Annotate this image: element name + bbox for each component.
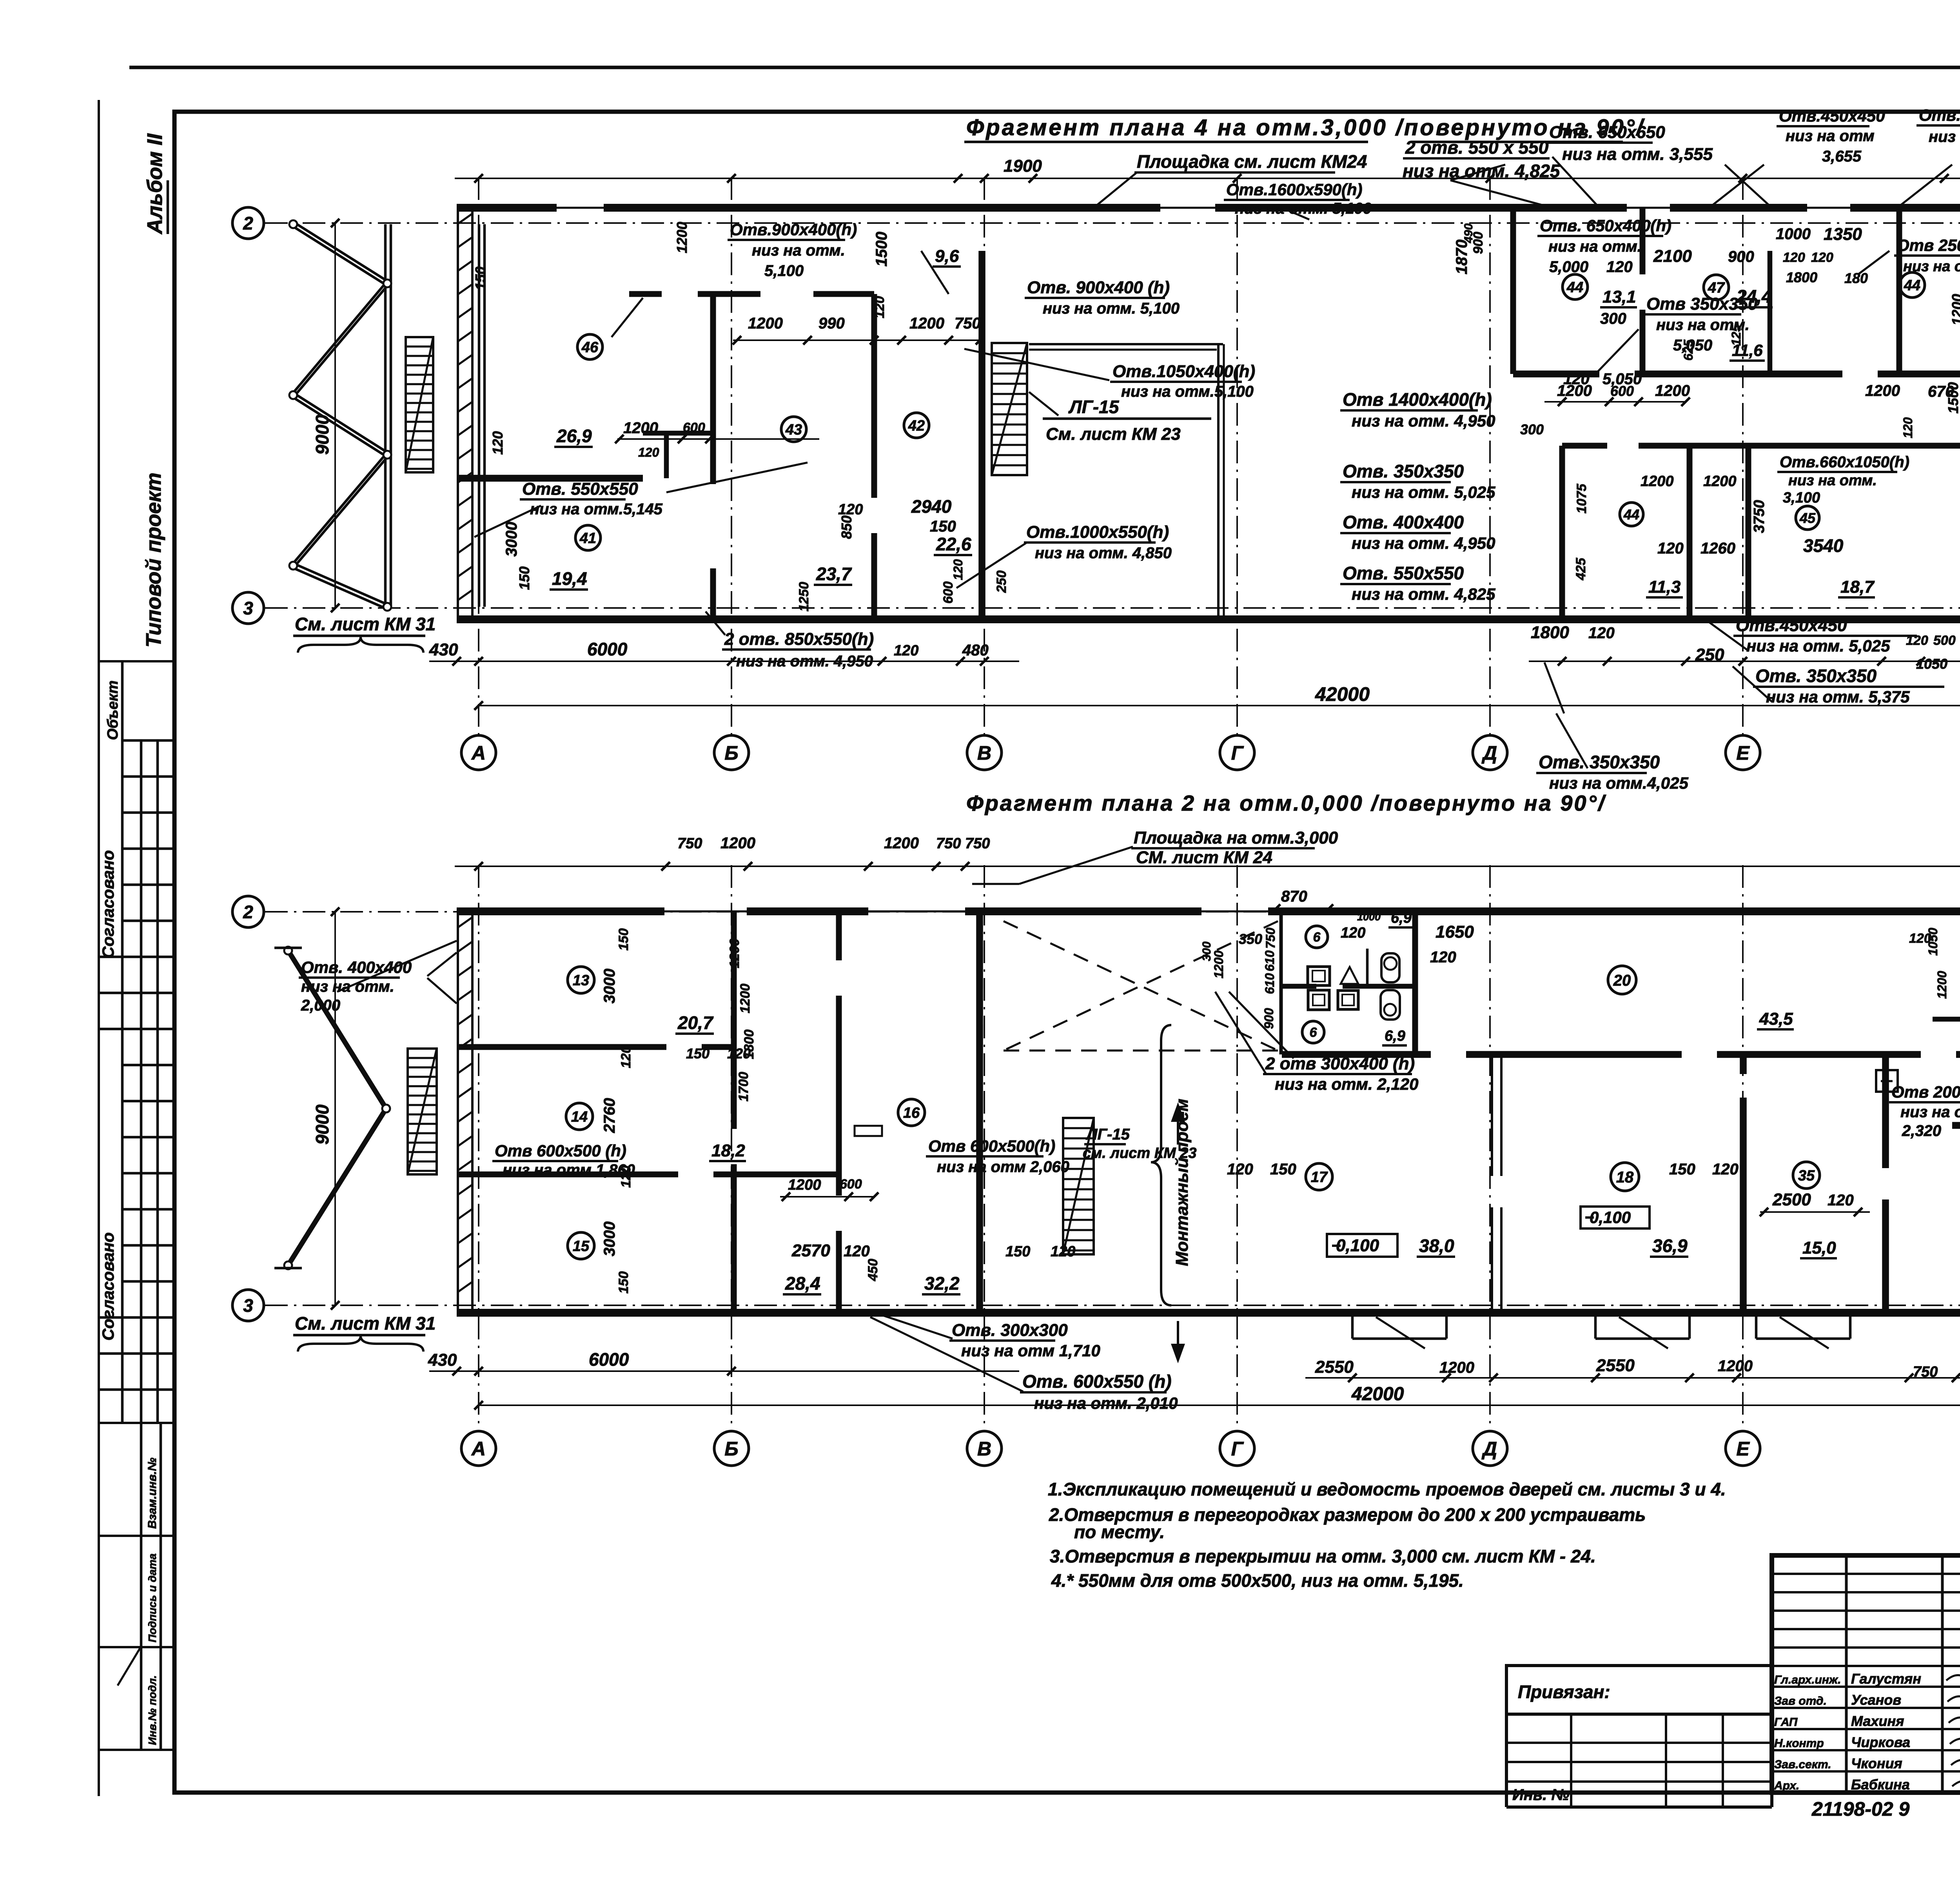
svg-text:600: 600 [941, 581, 956, 604]
svg-text:низ на отм 1,860: низ на отм 1,860 [503, 1161, 635, 1179]
vertical dimension 9000 (bottom plan) [334, 912, 336, 1305]
svg-text:Д: Д [1481, 1438, 1497, 1460]
svg-text:150: 150 [1669, 1161, 1695, 1178]
svg-text:1200: 1200 [909, 315, 944, 332]
svg-text:низ на отм. 5,100: низ на отм. 5,100 [1043, 300, 1180, 317]
grid circle Е (bottom plan) [1726, 1431, 1760, 1466]
svg-text:низ на отм.: низ на отм. [1548, 238, 1642, 255]
top plan: left outer wall (double with hatch) [457, 208, 459, 619]
svg-text:1250: 1250 [797, 582, 811, 611]
top plan mid wall dimension row [1544, 401, 1686, 403]
svg-text:1800: 1800 [1531, 623, 1569, 642]
svg-text:Отв.1000х550(h): Отв.1000х550(h) [1026, 523, 1169, 542]
svg-text:Отв. 400х400: Отв. 400х400 [301, 958, 412, 976]
svg-text:14: 14 [571, 1109, 588, 1125]
svg-text:6000: 6000 [587, 639, 628, 659]
svg-text:300: 300 [1520, 421, 1544, 437]
svg-text:120: 120 [1430, 949, 1456, 966]
svg-text:4.* 550мм для отв 500х500, ни: 4.* 550мм для отв 500х500, низ на отм. 5… [1051, 1570, 1464, 1591]
hall platform double outline (top plan) [1029, 343, 1223, 345]
svg-text:низ на отм 2,060: низ на отм 2,060 [937, 1158, 1069, 1176]
svg-text:43,5: 43,5 [1759, 1009, 1793, 1029]
svg-text:низ на отм. 4,950: низ на отм. 4,950 [1352, 412, 1495, 430]
svg-text:120: 120 [1657, 540, 1684, 557]
svg-text:15: 15 [573, 1238, 590, 1255]
svg-text:1000: 1000 [1776, 225, 1811, 243]
svg-text:18: 18 [1616, 1169, 1634, 1186]
svg-text:0,100: 0,100 [1590, 1208, 1631, 1227]
grid circle А (top plan) [461, 735, 496, 770]
svg-text:Чкония: Чкония [1851, 1755, 1902, 1771]
svg-text:150: 150 [472, 267, 488, 290]
svg-text:1260: 1260 [1700, 540, 1735, 557]
svg-text:750: 750 [677, 835, 702, 852]
svg-text:150: 150 [516, 566, 532, 590]
svg-text:Монтажный проем: Монтажный проем [1172, 1099, 1192, 1266]
svg-text:1870: 1870 [1453, 240, 1470, 274]
svg-text:300: 300 [1200, 942, 1213, 961]
grid circle Д (top plan) [1473, 735, 1507, 770]
svg-text:45: 45 [1799, 510, 1816, 526]
svg-text:480: 480 [962, 642, 989, 659]
svg-text:низ на отм.: низ на отм. [752, 242, 845, 259]
svg-text:Гл.арх.инж.: Гл.арх.инж. [1774, 1673, 1841, 1686]
title block left grid rows (upper) [1772, 1573, 1960, 1575]
svg-text:Отв. 350х350: Отв. 350х350 [1343, 461, 1464, 481]
grid circle В (bottom plan) [967, 1431, 1002, 1466]
-0,100 box (room 18 area) [1581, 1207, 1650, 1228]
svg-text:120: 120 [1901, 417, 1915, 438]
svg-text:Г: Г [1231, 742, 1244, 764]
bottom plan: top dimension line [455, 866, 1960, 867]
svg-text:Взам.инв.№: Взам.инв.№ [146, 1458, 159, 1529]
svg-text:1200: 1200 [720, 835, 755, 852]
svg-text:17: 17 [1311, 1169, 1328, 1186]
svg-text:низ на отм. 3,555: низ на отм. 3,555 [1562, 145, 1713, 164]
svg-text:Отв 1400х400(h): Отв 1400х400(h) [1343, 389, 1492, 410]
svg-text:Площадка на отм.3,000: Площадка на отм.3,000 [1134, 828, 1338, 847]
svg-text:24,4: 24,4 [1736, 286, 1772, 307]
svg-text:610: 610 [1263, 973, 1277, 994]
svg-text:150: 150 [930, 518, 956, 535]
svg-text:20: 20 [1613, 972, 1631, 989]
stair ЛГ-15 hatch (top plan) [992, 343, 1027, 475]
svg-text:Отв 200х200: Отв 200х200 [1891, 1083, 1960, 1101]
svg-text:2570: 2570 [791, 1241, 830, 1260]
top plan: top dimension line [455, 178, 1960, 179]
svg-text:Арх.: Арх. [1774, 1779, 1799, 1792]
svg-text:См. лист КМ 31: См. лист КМ 31 [295, 614, 436, 634]
svg-text:120: 120 [619, 1046, 633, 1068]
svg-text:низ на отм. 5,375: низ на отм. 5,375 [1766, 688, 1910, 706]
svg-text:1200: 1200 [1655, 382, 1690, 399]
svg-text:Чиркова: Чиркова [1851, 1734, 1910, 1750]
svg-text:Отв.650х550(h): Отв.650х550(h) [1919, 106, 1960, 124]
svg-text:425: 425 [1573, 557, 1588, 581]
grid circle 3 (top plan) [232, 592, 264, 624]
svg-text:1200: 1200 [1718, 1357, 1753, 1375]
grid circle Г (top plan) [1220, 735, 1254, 770]
svg-text:46: 46 [581, 339, 599, 356]
svg-text:1650: 1650 [1436, 922, 1474, 942]
bottom plan 42000 dimension [479, 1404, 1960, 1406]
svg-text:низ на отм. 5,025: низ на отм. 5,025 [1746, 637, 1890, 655]
svg-text:2 отв. 850х550(h): 2 отв. 850х550(h) [724, 630, 874, 649]
svg-text:430: 430 [429, 640, 458, 659]
svg-text:1900: 1900 [1004, 156, 1042, 176]
svg-text:Отв. 600х550 (h): Отв. 600х550 (h) [1022, 1371, 1172, 1392]
svg-text:по месту.: по месту. [1074, 1522, 1165, 1542]
svg-text:2500: 2500 [1772, 1190, 1811, 1209]
grid circle 2 (top plan) [232, 207, 264, 239]
svg-text:Е: Е [1736, 1438, 1750, 1460]
svg-text:120: 120 [1588, 624, 1615, 642]
svg-text:1200: 1200 [748, 315, 783, 332]
bottom plan: left outer wall [457, 911, 459, 1313]
svg-text:150: 150 [686, 1045, 710, 1062]
svg-text:32,2: 32,2 [924, 1273, 960, 1294]
svg-text:2550: 2550 [1596, 1356, 1635, 1375]
svg-text:1200: 1200 [1641, 473, 1674, 490]
svg-text:1200: 1200 [1439, 1359, 1474, 1376]
grid circle Б (top plan) [714, 735, 749, 770]
svg-text:низ на отм.5,145: низ на отм.5,145 [530, 501, 663, 518]
svg-text:1200: 1200 [1703, 473, 1737, 490]
svg-text:Е: Е [1736, 742, 1750, 764]
svg-text:13: 13 [573, 973, 589, 989]
svg-text:750: 750 [1913, 1364, 1938, 1380]
svg-text:750: 750 [955, 315, 981, 332]
grid row 2 dash-dot line (bottom plan) [265, 911, 1960, 913]
svg-text:Махиня: Махиня [1851, 1713, 1904, 1729]
triangle truss at left (bottom plan) [288, 948, 386, 1106]
svg-text:42000: 42000 [1351, 1384, 1404, 1404]
svg-text:28,4: 28,4 [785, 1273, 820, 1294]
grid circle А (bottom plan) [461, 1431, 496, 1466]
svg-text:23,7: 23,7 [816, 564, 852, 584]
top plan 42000 dimension [479, 705, 1960, 706]
svg-text:18,2: 18,2 [711, 1141, 745, 1160]
svg-text:Н.контр: Н.контр [1774, 1737, 1824, 1750]
svg-text:низ на отм. 5,025: низ на отм. 5,025 [1352, 483, 1495, 501]
svg-text:750: 750 [1263, 927, 1278, 949]
svg-text:5,000: 5,000 [1549, 258, 1588, 276]
svg-text:120: 120 [1828, 1192, 1854, 1209]
svg-text:120: 120 [1783, 250, 1805, 265]
svg-text:120: 120 [1712, 1161, 1739, 1178]
svg-text:Отв.450х450: Отв.450х450 [1779, 107, 1885, 125]
svg-text:См. лист КМ 31: См. лист КМ 31 [295, 1313, 436, 1334]
top plan: outer top wall [457, 204, 1960, 212]
svg-text:СМ. лист КМ 24: СМ. лист КМ 24 [1136, 848, 1272, 867]
svg-text:870: 870 [1281, 888, 1307, 905]
svg-text:1075: 1075 [1574, 483, 1589, 514]
top plan bottom dimension chains [429, 660, 1019, 662]
svg-text:44: 44 [1566, 279, 1583, 296]
svg-text:610: 610 [1263, 950, 1277, 971]
svg-text:150: 150 [616, 928, 631, 951]
svg-text:1200: 1200 [884, 835, 919, 852]
svg-text:0,100: 0,100 [1336, 1236, 1379, 1255]
svg-text:3540: 3540 [1803, 535, 1844, 556]
svg-text:Зав.сект.: Зав.сект. [1774, 1758, 1831, 1771]
svg-text:низ на отм. 2,010: низ на отм. 2,010 [1034, 1394, 1178, 1412]
bottom plan: outer bottom wall [457, 1309, 1960, 1317]
svg-text:18,7: 18,7 [1840, 577, 1875, 597]
svg-text:1200: 1200 [1212, 951, 1226, 978]
grid circle Д (bottom plan) [1473, 1431, 1507, 1466]
svg-text:11,3: 11,3 [1648, 577, 1681, 597]
svg-text:ГАП: ГАП [1774, 1716, 1798, 1729]
vertical brace монтажный проем (bottom plan) [1151, 1025, 1171, 1305]
svg-text:990: 990 [818, 315, 845, 332]
svg-text:3.Отверстия в перекрытии на: 3.Отверстия в перекрытии на отм. 3,000 с… [1050, 1546, 1596, 1566]
grid row 3 dash-dot line (bottom plan) [265, 1305, 1960, 1306]
svg-text:1700: 1700 [736, 1072, 751, 1101]
svg-text:750: 750 [936, 835, 961, 852]
svg-text:Альбом II: Альбом II [143, 133, 167, 235]
svg-text:Объект: Объект [105, 680, 121, 740]
svg-text:низ на отм.5,100: низ на отм.5,100 [1929, 128, 1960, 145]
svg-text:150: 150 [1270, 1161, 1296, 1178]
svg-text:1000: 1000 [1357, 911, 1381, 923]
svg-text:Отв. 650х650: Отв. 650х650 [1549, 123, 1665, 142]
sheet outer border top line [129, 66, 1960, 69]
svg-text:120: 120 [951, 559, 965, 580]
svg-text:13,1: 13,1 [1602, 287, 1636, 307]
svg-text:1200: 1200 [1865, 382, 1900, 399]
svg-text:44: 44 [1904, 278, 1920, 294]
svg-text:6,9: 6,9 [1391, 910, 1412, 926]
svg-text:1350: 1350 [1824, 225, 1862, 244]
svg-text:150: 150 [616, 1271, 631, 1294]
bottom plan door arcs below wall [1351, 1316, 1354, 1339]
sidebar ruled rows [122, 739, 174, 742]
svg-text:Согласовано: Согласовано [99, 1232, 117, 1341]
title block personnel rows [1772, 1686, 1960, 1688]
svg-text:3750: 3750 [1751, 500, 1768, 533]
svg-text:2: 2 [243, 213, 253, 234]
svg-text:120: 120 [1811, 250, 1833, 265]
title block outer box [1772, 1555, 1960, 1793]
svg-text:2940: 2940 [911, 496, 952, 517]
svg-text:47: 47 [1708, 280, 1725, 296]
svg-text:3000: 3000 [601, 969, 618, 1003]
svg-text:900: 900 [1728, 248, 1754, 265]
svg-text:Отв.1600х590(h): Отв.1600х590(h) [1226, 180, 1363, 199]
svg-text:9,6: 9,6 [935, 247, 959, 266]
svg-text:1200: 1200 [788, 1177, 821, 1193]
svg-text:См. лист КМ 23: См. лист КМ 23 [1046, 425, 1181, 444]
grid circle В (top plan) [967, 735, 1002, 770]
svg-text:120: 120 [619, 1165, 633, 1188]
svg-text:35: 35 [1798, 1168, 1815, 1184]
svg-text:1050: 1050 [1926, 928, 1940, 956]
svg-text:Площадка см. лист КМ24: Площадка см. лист КМ24 [1137, 151, 1367, 172]
svg-text:Отв. 900х400 (h): Отв. 900х400 (h) [1027, 278, 1170, 297]
svg-text:19,4: 19,4 [552, 568, 587, 589]
svg-text:600: 600 [683, 420, 705, 435]
svg-text:36,9: 36,9 [1652, 1236, 1688, 1256]
svg-text:Инв.№ подл.: Инв.№ подл. [146, 1675, 158, 1745]
svg-text:ЛГ-15: ЛГ-15 [1085, 1126, 1130, 1143]
svg-text:А: А [471, 1438, 486, 1460]
svg-text:2 отв. 550 х 550: 2 отв. 550 х 550 [1405, 137, 1549, 158]
truss bracing at left (top plan) [384, 224, 387, 607]
svg-text:15,0: 15,0 [1802, 1238, 1836, 1257]
svg-text:2550: 2550 [1315, 1357, 1354, 1377]
svg-text:ЛГ-15: ЛГ-15 [1068, 397, 1120, 417]
title block left grid verticals [1845, 1555, 1848, 1793]
svg-text:3000: 3000 [503, 522, 520, 557]
svg-text:22,6: 22,6 [936, 534, 971, 554]
svg-text:Бабкина: Бабкина [1851, 1776, 1910, 1793]
svg-text:16: 16 [903, 1105, 920, 1121]
svg-text:300: 300 [1600, 310, 1626, 327]
svg-text:Фрагмент плана 4 на отм.3,000: Фрагмент плана 4 на отм.3,000 /повернуто… [966, 115, 1645, 140]
bottom plan room labels [568, 967, 594, 993]
bottom plan: outer top wall [457, 907, 1960, 915]
svg-text:180: 180 [1844, 270, 1868, 286]
svg-text:43: 43 [785, 422, 802, 438]
grid circle Г (bottom plan) [1220, 1431, 1254, 1466]
svg-text:120: 120 [1606, 258, 1633, 276]
svg-text:Отв. 400х400: Отв. 400х400 [1343, 512, 1464, 532]
svg-text:625: 625 [1681, 339, 1695, 361]
svg-text:1200: 1200 [623, 419, 658, 437]
svg-text:41: 41 [579, 530, 596, 547]
svg-text:низ на отм.: низ на отм. [1788, 472, 1877, 489]
svg-text:250: 250 [994, 570, 1009, 593]
svg-text:Д: Д [1481, 742, 1497, 764]
svg-text:250: 250 [1695, 645, 1724, 664]
svg-text:Отв. 550х550: Отв. 550х550 [522, 479, 638, 499]
svg-text:490: 490 [1462, 223, 1475, 243]
svg-text:44: 44 [1623, 506, 1639, 523]
svg-text:Отв.1050х400(h): Отв.1050х400(h) [1112, 362, 1255, 381]
svg-text:1800: 1800 [1786, 269, 1817, 285]
top plan interior walls [457, 475, 643, 482]
svg-text:120: 120 [844, 1243, 870, 1260]
svg-text:120: 120 [1341, 925, 1365, 941]
grid circle Б (bottom plan) [714, 1431, 749, 1466]
svg-text:Отв 600х500(h): Отв 600х500(h) [928, 1137, 1055, 1155]
svg-text:3000: 3000 [601, 1221, 618, 1256]
grid circle 2 (bottom plan) [232, 896, 264, 927]
washroom fixtures [1308, 967, 1330, 985]
svg-text:Инв. №: Инв. № [1512, 1786, 1569, 1804]
svg-text:низ на отм. 4,850: низ на отм. 4,850 [1035, 544, 1172, 562]
svg-text:1800: 1800 [742, 1029, 757, 1059]
svg-text:низ на отм.5,100: низ на отм.5,100 [1121, 383, 1254, 400]
svg-text:Отв. 350х350: Отв. 350х350 [1755, 666, 1877, 686]
svg-text:1.Экспликацию помещений и вед: 1.Экспликацию помещений и ведомость прое… [1048, 1479, 1726, 1499]
svg-text:Отв.900х400(h): Отв.900х400(h) [730, 220, 857, 239]
svg-text:1200: 1200 [1935, 971, 1949, 999]
-0,100 box (room 17) [1327, 1234, 1397, 1257]
svg-text:42: 42 [908, 418, 925, 434]
svg-text:2 отв 300х400 (h): 2 отв 300х400 (h) [1265, 1054, 1415, 1073]
svg-text:В: В [977, 742, 991, 764]
svg-text:850: 850 [838, 515, 855, 539]
svg-text:низ на отм. 4,825: низ на отм. 4,825 [1352, 585, 1495, 603]
svg-text:21198-02 9: 21198-02 9 [1811, 1798, 1909, 1820]
svg-text:125: 125 [1729, 324, 1743, 346]
svg-text:3: 3 [243, 598, 253, 619]
svg-text:Зав отд.: Зав отд. [1774, 1695, 1827, 1707]
svg-text:Отв. 350х350: Отв. 350х350 [1539, 752, 1660, 772]
svg-text:В: В [977, 1438, 991, 1460]
svg-text:низ на отм 1,710: низ на отм 1,710 [961, 1341, 1100, 1360]
svg-text:Б: Б [724, 1438, 738, 1460]
svg-text:3,100: 3,100 [1783, 490, 1820, 506]
svg-text:6: 6 [1310, 1025, 1318, 1040]
svg-text:низ на отм. 4,950: низ на отм. 4,950 [736, 653, 873, 670]
svg-text:низ на отм.4,025: низ на отм.4,025 [1549, 774, 1688, 792]
sidebar vertical dividers [121, 661, 124, 1423]
grid column dash-dot lines (top plan) [478, 177, 479, 735]
svg-text:2100: 2100 [1653, 247, 1692, 266]
svg-text:Отв. 300х300: Отв. 300х300 [952, 1321, 1068, 1340]
svg-text:120: 120 [894, 642, 918, 659]
bottom plan bottom dimension chains [1305, 1377, 1960, 1379]
dashed X (монтажный проем zone) [1004, 921, 1278, 1051]
stair ladder hatch left (bottom plan) [408, 1049, 437, 1174]
grid row 3 dash-dot line (top plan) [265, 607, 1960, 609]
svg-text:1050: 1050 [1916, 656, 1947, 672]
svg-text:38,0: 38,0 [1419, 1236, 1454, 1256]
svg-text:1200: 1200 [738, 983, 753, 1013]
sidebar table top line [99, 660, 174, 662]
svg-text:150: 150 [1005, 1243, 1030, 1260]
svg-text:Отв.660х1050(h): Отв.660х1050(h) [1780, 454, 1909, 471]
svg-text:2,320: 2,320 [1902, 1122, 1941, 1140]
svg-text:3,655: 3,655 [1822, 148, 1862, 165]
svg-text:низ на отм. 4,950: низ на отм. 4,950 [1352, 534, 1495, 552]
svg-text:1200: 1200 [674, 222, 690, 253]
svg-text:2760: 2760 [601, 1098, 618, 1133]
svg-text:Фрагмент плана 2 на отм.0,000: Фрагмент плана 2 на отм.0,000 /повернуто… [966, 791, 1606, 815]
svg-text:Г: Г [1231, 1438, 1244, 1460]
svg-text:Усанов: Усанов [1851, 1692, 1901, 1708]
svg-text:Отв. 550х550: Отв. 550х550 [1343, 563, 1464, 583]
svg-text:Типовой проект: Типовой проект [142, 472, 165, 648]
svg-text:9000: 9000 [312, 1104, 332, 1145]
svg-text:низ на отм.: низ на отм. [301, 978, 394, 995]
svg-text:6000: 6000 [589, 1349, 629, 1370]
svg-text:Подпись и дата: Подпись и дата [146, 1553, 158, 1642]
svg-text:А: А [471, 742, 486, 764]
svg-text:2,000: 2,000 [301, 997, 340, 1014]
svg-text:450: 450 [866, 1259, 880, 1281]
sidebar bottom section dividers [99, 1422, 174, 1424]
grid circle 3 (bottom plan) [232, 1290, 264, 1321]
svg-text:500: 500 [1933, 633, 1956, 648]
svg-text:2: 2 [243, 902, 253, 922]
svg-text:600: 600 [1610, 383, 1634, 399]
bottom plan interior walls [731, 911, 737, 1129]
svg-text:низ на отм. 5,100: низ на отм. 5,100 [1235, 200, 1372, 217]
svg-text:120: 120 [1051, 1243, 1075, 1260]
svg-text:120: 120 [490, 431, 506, 455]
washroom labels [1306, 926, 1328, 948]
svg-text:Согласовано: Согласовано [99, 850, 117, 958]
svg-text:1200: 1200 [727, 938, 742, 968]
svg-text:120: 120 [838, 501, 863, 518]
svg-text:600: 600 [840, 1177, 862, 1192]
svg-text:6,9: 6,9 [1385, 1028, 1405, 1044]
stair hatch at В (bottom plan) [1063, 1118, 1094, 1254]
